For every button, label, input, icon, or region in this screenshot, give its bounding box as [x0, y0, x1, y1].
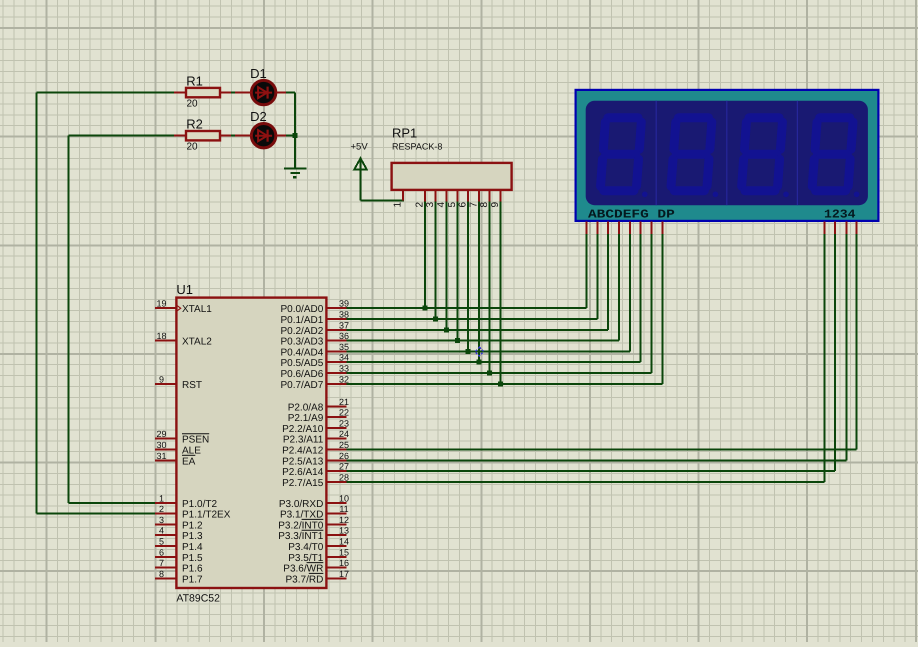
svg-text:P2.0/A8: P2.0/A8 — [288, 402, 324, 413]
svg-text:P2.2/A10: P2.2/A10 — [282, 424, 324, 435]
svg-text:P0.7/AD7: P0.7/AD7 — [280, 380, 323, 391]
svg-text:15: 15 — [339, 547, 349, 557]
svg-text:P1.7: P1.7 — [182, 574, 203, 585]
svg-text:39: 39 — [339, 299, 349, 309]
svg-text:17: 17 — [339, 569, 349, 579]
svg-text:P0.3/AD3: P0.3/AD3 — [280, 337, 323, 348]
svg-text:P2.6/A14: P2.6/A14 — [282, 467, 324, 478]
svg-text:24: 24 — [339, 429, 349, 439]
svg-text:25: 25 — [339, 440, 349, 450]
svg-text:2: 2 — [159, 504, 164, 514]
svg-text:1: 1 — [393, 202, 404, 208]
svg-text:36: 36 — [339, 331, 349, 341]
svg-text:P3.3/INT1: P3.3/INT1 — [278, 531, 323, 542]
svg-text:7: 7 — [159, 558, 164, 568]
svg-text:P1.6: P1.6 — [182, 564, 203, 575]
svg-text:10: 10 — [339, 493, 349, 503]
svg-text:P1.4: P1.4 — [182, 542, 203, 553]
svg-text:37: 37 — [339, 320, 349, 330]
svg-text:1234: 1234 — [824, 208, 856, 222]
svg-text:32: 32 — [339, 374, 349, 384]
svg-text:P0.6/AD6: P0.6/AD6 — [280, 369, 323, 380]
svg-text:8: 8 — [479, 202, 490, 208]
svg-text:33: 33 — [339, 364, 349, 374]
svg-text:22: 22 — [339, 408, 349, 418]
svg-text:P3.4/T0: P3.4/T0 — [288, 542, 323, 553]
svg-text:13: 13 — [339, 526, 349, 536]
svg-text:6: 6 — [458, 202, 469, 208]
svg-text:11: 11 — [339, 504, 348, 514]
svg-text:XTAL2: XTAL2 — [182, 337, 212, 348]
svg-text:35: 35 — [339, 342, 349, 352]
svg-text:P1.3: P1.3 — [182, 531, 203, 542]
svg-text:P3.7/RD: P3.7/RD — [286, 574, 324, 585]
svg-text:16: 16 — [339, 558, 349, 568]
svg-text:12: 12 — [339, 515, 349, 525]
svg-text:5: 5 — [447, 202, 458, 208]
svg-text:U1: U1 — [176, 282, 193, 297]
svg-text:P3.0/RXD: P3.0/RXD — [279, 499, 323, 510]
svg-text:P0.2/AD2: P0.2/AD2 — [280, 326, 323, 337]
svg-text:P1.2: P1.2 — [182, 520, 203, 531]
svg-text:XTAL1: XTAL1 — [182, 304, 212, 315]
svg-text:P0.1/AD1: P0.1/AD1 — [280, 315, 323, 326]
svg-text:21: 21 — [339, 397, 349, 407]
svg-text:2: 2 — [414, 202, 425, 208]
svg-text:9: 9 — [159, 374, 164, 384]
svg-text:AT89C52: AT89C52 — [176, 593, 220, 605]
svg-text:34: 34 — [339, 353, 349, 363]
svg-text:D2: D2 — [250, 109, 267, 124]
svg-text:29: 29 — [156, 429, 166, 439]
svg-text:3: 3 — [159, 515, 164, 525]
svg-text:P0.5/AD5: P0.5/AD5 — [280, 358, 323, 369]
svg-text:18: 18 — [156, 331, 166, 341]
svg-text:RESPACK-8: RESPACK-8 — [392, 142, 442, 152]
svg-text:P2.3/A11: P2.3/A11 — [283, 435, 324, 446]
svg-text:8: 8 — [159, 569, 164, 579]
svg-text:R1: R1 — [186, 74, 203, 89]
svg-text:19: 19 — [156, 299, 166, 309]
svg-text:EA: EA — [182, 456, 196, 467]
svg-text:+5V: +5V — [351, 142, 369, 153]
svg-text:28: 28 — [339, 472, 349, 482]
svg-text:5: 5 — [159, 537, 164, 547]
svg-text:RST: RST — [182, 380, 202, 391]
svg-text:ABCDEFG DP: ABCDEFG DP — [588, 208, 675, 222]
svg-text:P0.0/AD0: P0.0/AD0 — [280, 304, 323, 315]
svg-text:30: 30 — [156, 440, 166, 450]
svg-text:26: 26 — [339, 451, 349, 461]
svg-text:P2.4/A12: P2.4/A12 — [282, 446, 324, 457]
svg-text:31: 31 — [156, 451, 166, 461]
svg-text:20: 20 — [187, 99, 199, 110]
svg-text:P1.1/T2EX: P1.1/T2EX — [182, 510, 231, 521]
svg-text:RP1: RP1 — [392, 126, 417, 141]
svg-text:1: 1 — [159, 493, 164, 503]
svg-text:27: 27 — [339, 462, 349, 472]
svg-text:38: 38 — [339, 310, 349, 320]
svg-text:3: 3 — [425, 202, 436, 208]
svg-text:P2.7/A15: P2.7/A15 — [282, 478, 324, 489]
svg-text:P2.5/A13: P2.5/A13 — [282, 456, 324, 467]
svg-text:P1.0/T2: P1.0/T2 — [182, 499, 217, 510]
svg-text:9: 9 — [490, 202, 501, 208]
svg-text:P0.4/AD4: P0.4/AD4 — [280, 347, 323, 358]
svg-text:R2: R2 — [186, 117, 203, 132]
svg-text:23: 23 — [339, 418, 349, 428]
svg-text:P2.1/A9: P2.1/A9 — [288, 413, 324, 424]
svg-text:6: 6 — [159, 547, 164, 557]
svg-text:4: 4 — [436, 202, 447, 208]
svg-text:P1.5: P1.5 — [182, 553, 203, 564]
svg-text:D1: D1 — [250, 66, 267, 81]
svg-text:7: 7 — [468, 202, 479, 208]
svg-text:4: 4 — [159, 526, 164, 536]
svg-text:14: 14 — [339, 537, 349, 547]
svg-text:PSEN: PSEN — [182, 435, 209, 446]
svg-text:20: 20 — [187, 142, 199, 153]
